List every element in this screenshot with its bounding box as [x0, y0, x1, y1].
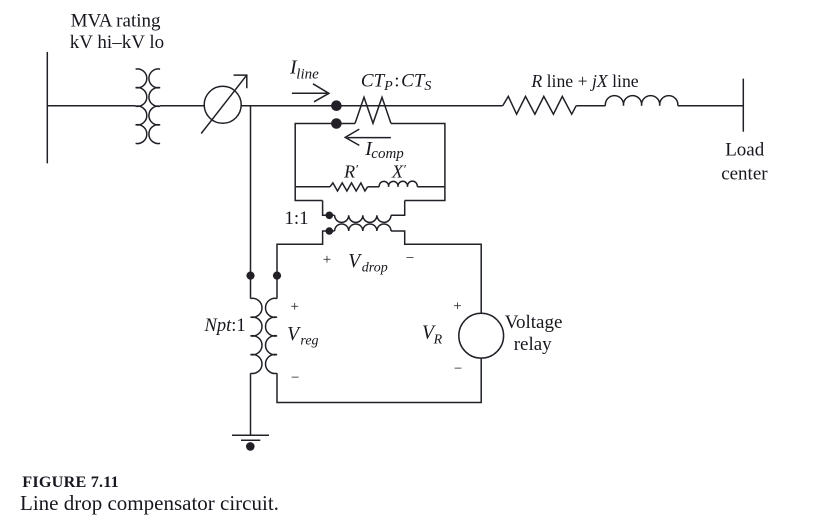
svg-text:Load: Load — [725, 140, 765, 161]
wire: T1 to regulator U1 — [160, 105, 204, 107]
wire: 1:1 primary right lead up to loop — [391, 201, 405, 216]
node: polarity dot on Npt secondary lead — [273, 272, 281, 280]
svg-text:R line + jX line: R line + jX line — [530, 71, 638, 91]
bus: load center — [742, 79, 744, 132]
svg-text:line: line — [296, 66, 319, 82]
voltage relay body — [459, 313, 504, 358]
node: polarity dot on Npt primary lead — [246, 272, 254, 280]
svg-text:Line drop compensator circuit.: Line drop compensator circuit. — [20, 491, 279, 515]
svg-text:FIGURE 7.11: FIGURE 7.11 — [22, 473, 119, 491]
node: ground dot — [246, 442, 255, 451]
wire: bus to transformer T1 — [47, 105, 135, 107]
svg-text:drop: drop — [362, 261, 388, 276]
CT secondary winding zigzag CTP:CTS — [355, 97, 391, 123]
svg-text:R: R — [433, 333, 443, 348]
transformer T1 primary winding — [136, 69, 147, 144]
svg-text:Voltage: Voltage — [505, 312, 563, 333]
wire: between R' and X' — [368, 186, 380, 188]
svg-text:−: − — [406, 251, 414, 267]
svg-text:+: + — [291, 299, 299, 315]
inductor X' — [379, 181, 417, 187]
svg-text:V: V — [287, 324, 301, 345]
transformer Npt primary winding — [251, 298, 262, 373]
svg-text:comp: comp — [371, 146, 404, 162]
wire: regulator tap down to Npt transformer — [250, 106, 252, 299]
wire: 1:1 secondary right lead to voltage relay — [391, 231, 481, 313]
svg-text:V: V — [348, 251, 362, 272]
wire: Npt secondary bottom to relay bottom — [277, 358, 481, 402]
wire: between R line and X line — [576, 105, 605, 107]
regulator U1 body — [204, 86, 241, 123]
svg-text:+: + — [323, 252, 331, 268]
svg-text:−: − — [454, 361, 462, 377]
svg-text:R′: R′ — [343, 162, 358, 182]
wire: X line to load bus — [678, 105, 744, 107]
svg-text:kV hi–kV lo: kV hi–kV lo — [70, 32, 164, 53]
svg-text:center: center — [721, 164, 768, 185]
svg-text:−: − — [291, 370, 299, 386]
transformer 1:1 secondary winding — [335, 224, 391, 231]
wire: compensator loop outline — [295, 124, 445, 201]
arrow: I_comp direction — [345, 129, 391, 145]
resistor R' — [330, 183, 368, 191]
transformer 1:1 primary winding — [335, 215, 391, 222]
node: polarity dot on 1:1 secondary — [326, 227, 334, 235]
svg-text:X′: X′ — [391, 162, 406, 182]
wire: Npt primary to ground — [250, 373, 252, 435]
wire: X' to right edge of loop — [417, 186, 445, 188]
svg-text:+: + — [453, 298, 461, 314]
bus: source bus — [46, 52, 48, 163]
svg-text:MVA rating: MVA rating — [71, 11, 161, 32]
node: junction dot on compensator loop — [331, 118, 342, 129]
svg-text:1:1: 1:1 — [284, 208, 308, 229]
svg-text:reg: reg — [300, 333, 318, 348]
wire: 1:1 secondary left lead to Npt secondary — [277, 231, 335, 299]
node: junction dot on main line (CT tap) — [331, 100, 342, 111]
resistor R line — [503, 96, 577, 114]
regulator U1 adjustment arrow — [201, 75, 247, 133]
wire: main line from regulator to load bus — [241, 105, 503, 107]
transformer T1 secondary winding — [149, 69, 160, 144]
svg-text:CTP : CTS: CTP : CTS — [361, 71, 432, 95]
arrow: I_line direction — [292, 84, 329, 102]
transformer Npt secondary winding — [266, 298, 277, 373]
ground — [232, 435, 269, 440]
wire: compensator middle branch (left of R') — [295, 186, 330, 188]
inductor X line — [605, 96, 677, 106]
svg-text:Npt:1: Npt:1 — [204, 316, 246, 336]
svg-text:relay: relay — [514, 334, 552, 355]
node: polarity dot on 1:1 primary — [326, 212, 334, 220]
wire: left stub from loop to 1:1 transformer — [323, 201, 335, 216]
